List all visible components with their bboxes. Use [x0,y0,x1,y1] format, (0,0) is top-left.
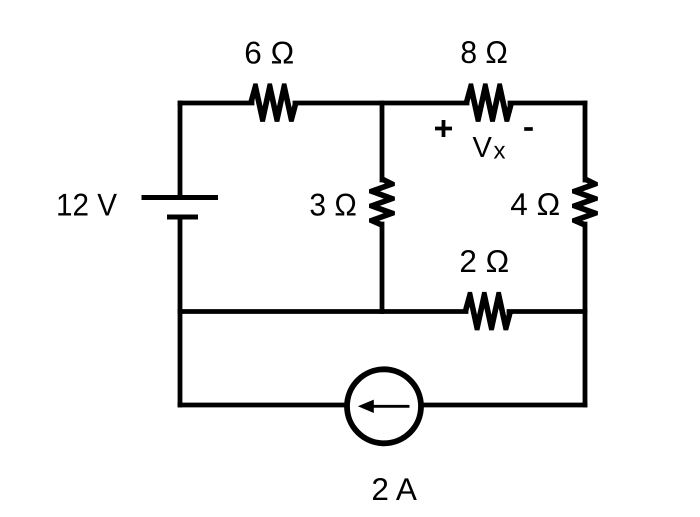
svg-text:8 Ω: 8 Ω [460,34,508,70]
svg-text:Vx: Vx [473,132,506,165]
svg-text:4 Ω: 4 Ω [510,186,560,222]
svg-text:2 A: 2 A [371,471,417,507]
svg-text:6 Ω: 6 Ω [244,35,294,71]
svg-text:12 V: 12 V [56,187,117,223]
svg-text:2 Ω: 2 Ω [459,243,509,279]
svg-text:3 Ω: 3 Ω [309,187,357,223]
